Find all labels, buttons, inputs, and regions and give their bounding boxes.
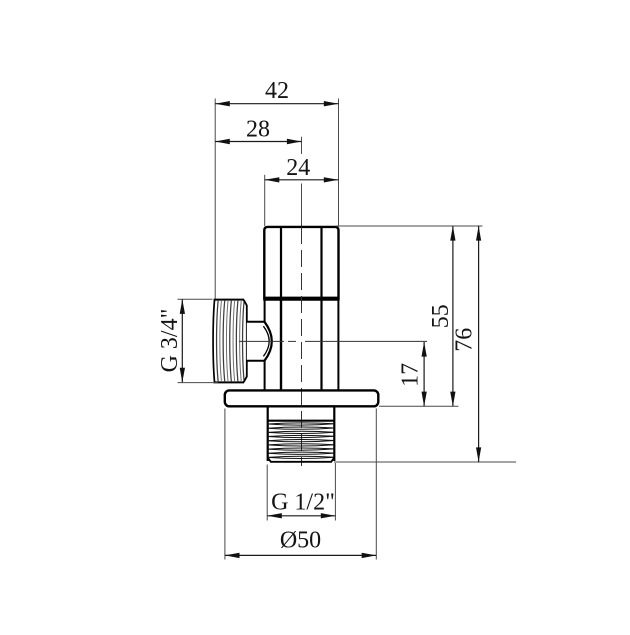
top extension line for 55/76 bbox=[335, 225, 482, 227]
dimension 17 top arrow bbox=[422, 342, 427, 357]
svg-text:28: 28 bbox=[246, 117, 270, 143]
svg-text:42: 42 bbox=[265, 78, 289, 104]
dimension 28 line bbox=[215, 141, 301, 143]
valve handle outline bbox=[264, 227, 338, 298]
dimension 76 bottom arrow bbox=[476, 447, 481, 462]
side thread top edge bbox=[214, 299, 244, 301]
svg-text:Ø50: Ø50 bbox=[280, 528, 321, 554]
extension line left of dim 42/28 bbox=[214, 99, 216, 299]
extension line left of dim 24 bbox=[264, 175, 266, 226]
flange bbox=[225, 390, 378, 406]
svg-text:G 1/2": G 1/2" bbox=[271, 490, 335, 516]
dimension 28 left arrow bbox=[215, 139, 230, 144]
extension line right of dim 28 (lower segment) bbox=[301, 184, 303, 227]
svg-text:G 3/4": G 3/4" bbox=[157, 309, 183, 373]
dimension 28 right arrow bbox=[287, 139, 302, 144]
bottom port right wall bbox=[333, 406, 335, 461]
dimension 42 line bbox=[215, 103, 338, 105]
dimension 17 bottom arrow bbox=[422, 392, 427, 407]
dimension 42 left arrow bbox=[215, 101, 230, 106]
dimension G 1/2 right arrow bbox=[321, 513, 336, 518]
body right edge bbox=[337, 300, 339, 390]
bottom thread bottom edge with chamfers bbox=[268, 458, 335, 462]
svg-text:55: 55 bbox=[428, 304, 454, 328]
dimension 24 line bbox=[265, 179, 339, 181]
bottom thread start line bbox=[268, 420, 335, 422]
body inner right line bbox=[320, 300, 322, 390]
body inner left line bbox=[280, 300, 282, 390]
dimension G 1/2 line bbox=[267, 515, 335, 517]
dimension diameter 50 left arrow bbox=[225, 553, 240, 558]
hex nut body bbox=[247, 322, 272, 361]
dimension G 3/4 bottom arrow bbox=[180, 368, 185, 383]
svg-text:76: 76 bbox=[451, 328, 477, 352]
dimension G 3/4 top arrow bbox=[180, 299, 185, 314]
dimension 24 right arrow bbox=[324, 177, 339, 182]
handle groove right bbox=[320, 227, 322, 298]
hex nut top edge bbox=[246, 321, 265, 323]
extension line left of diameter 50 bbox=[224, 409, 226, 560]
extension line bottom of G 3/4 bbox=[178, 382, 219, 384]
horizontal centerline of side port segment 2 bbox=[288, 340, 296, 342]
handle groove left bbox=[280, 227, 282, 298]
bottom extension line for 17/55 (flange bottom) bbox=[379, 405, 459, 407]
dimension 17 line bbox=[423, 342, 425, 406]
centerline through hex bbox=[239, 340, 284, 342]
dimension 55 line bbox=[452, 226, 454, 406]
extension line right of dim 42/24 bbox=[338, 99, 340, 227]
dimension diameter 50 right arrow bbox=[362, 553, 377, 558]
extension line left of G 1/2 bbox=[266, 465, 268, 521]
side thread ridge lenses bbox=[217, 300, 245, 382]
bottom extension line for 76 (thread bottom) bbox=[334, 461, 516, 463]
svg-text:17: 17 bbox=[398, 363, 424, 387]
side thread bottom edge bbox=[214, 381, 244, 383]
extension line right of diameter 50 bbox=[375, 409, 377, 560]
dimension 76 line bbox=[478, 226, 480, 462]
hex nut inner arc bbox=[263, 326, 269, 356]
vertical centerline (dash-dot) bbox=[301, 227, 303, 466]
dimension 76 top arrow bbox=[476, 226, 481, 241]
hex nut bottom edge bbox=[246, 360, 265, 362]
dimension 42 right arrow bbox=[324, 101, 339, 106]
extension line right of G 1/2 bbox=[334, 463, 336, 521]
dimension diameter 50 line bbox=[225, 554, 376, 556]
bottom port left wall bbox=[267, 406, 269, 461]
dimension G 3/4 line bbox=[181, 299, 183, 382]
svg-text:24: 24 bbox=[286, 155, 310, 181]
extension line right of dim 28 (upper segment) bbox=[301, 137, 303, 154]
horizontal centerline of side port segment 3 bbox=[305, 340, 427, 342]
dimension 55 top arrow bbox=[450, 226, 455, 241]
dimension 55 bottom arrow bbox=[450, 392, 455, 407]
body left edge bbox=[264, 300, 266, 390]
dimension 24 left arrow bbox=[265, 177, 280, 182]
handle/body junction line bbox=[263, 298, 339, 301]
bottom thread helix lens rows bbox=[268, 423, 335, 459]
dimension G 1/2 left arrow bbox=[267, 513, 282, 518]
side thread left edge bbox=[213, 300, 214, 382]
side thread end cap bbox=[244, 300, 247, 382]
extension line top of G 3/4 bbox=[178, 298, 213, 300]
hex nut outer arc bbox=[265, 322, 272, 361]
